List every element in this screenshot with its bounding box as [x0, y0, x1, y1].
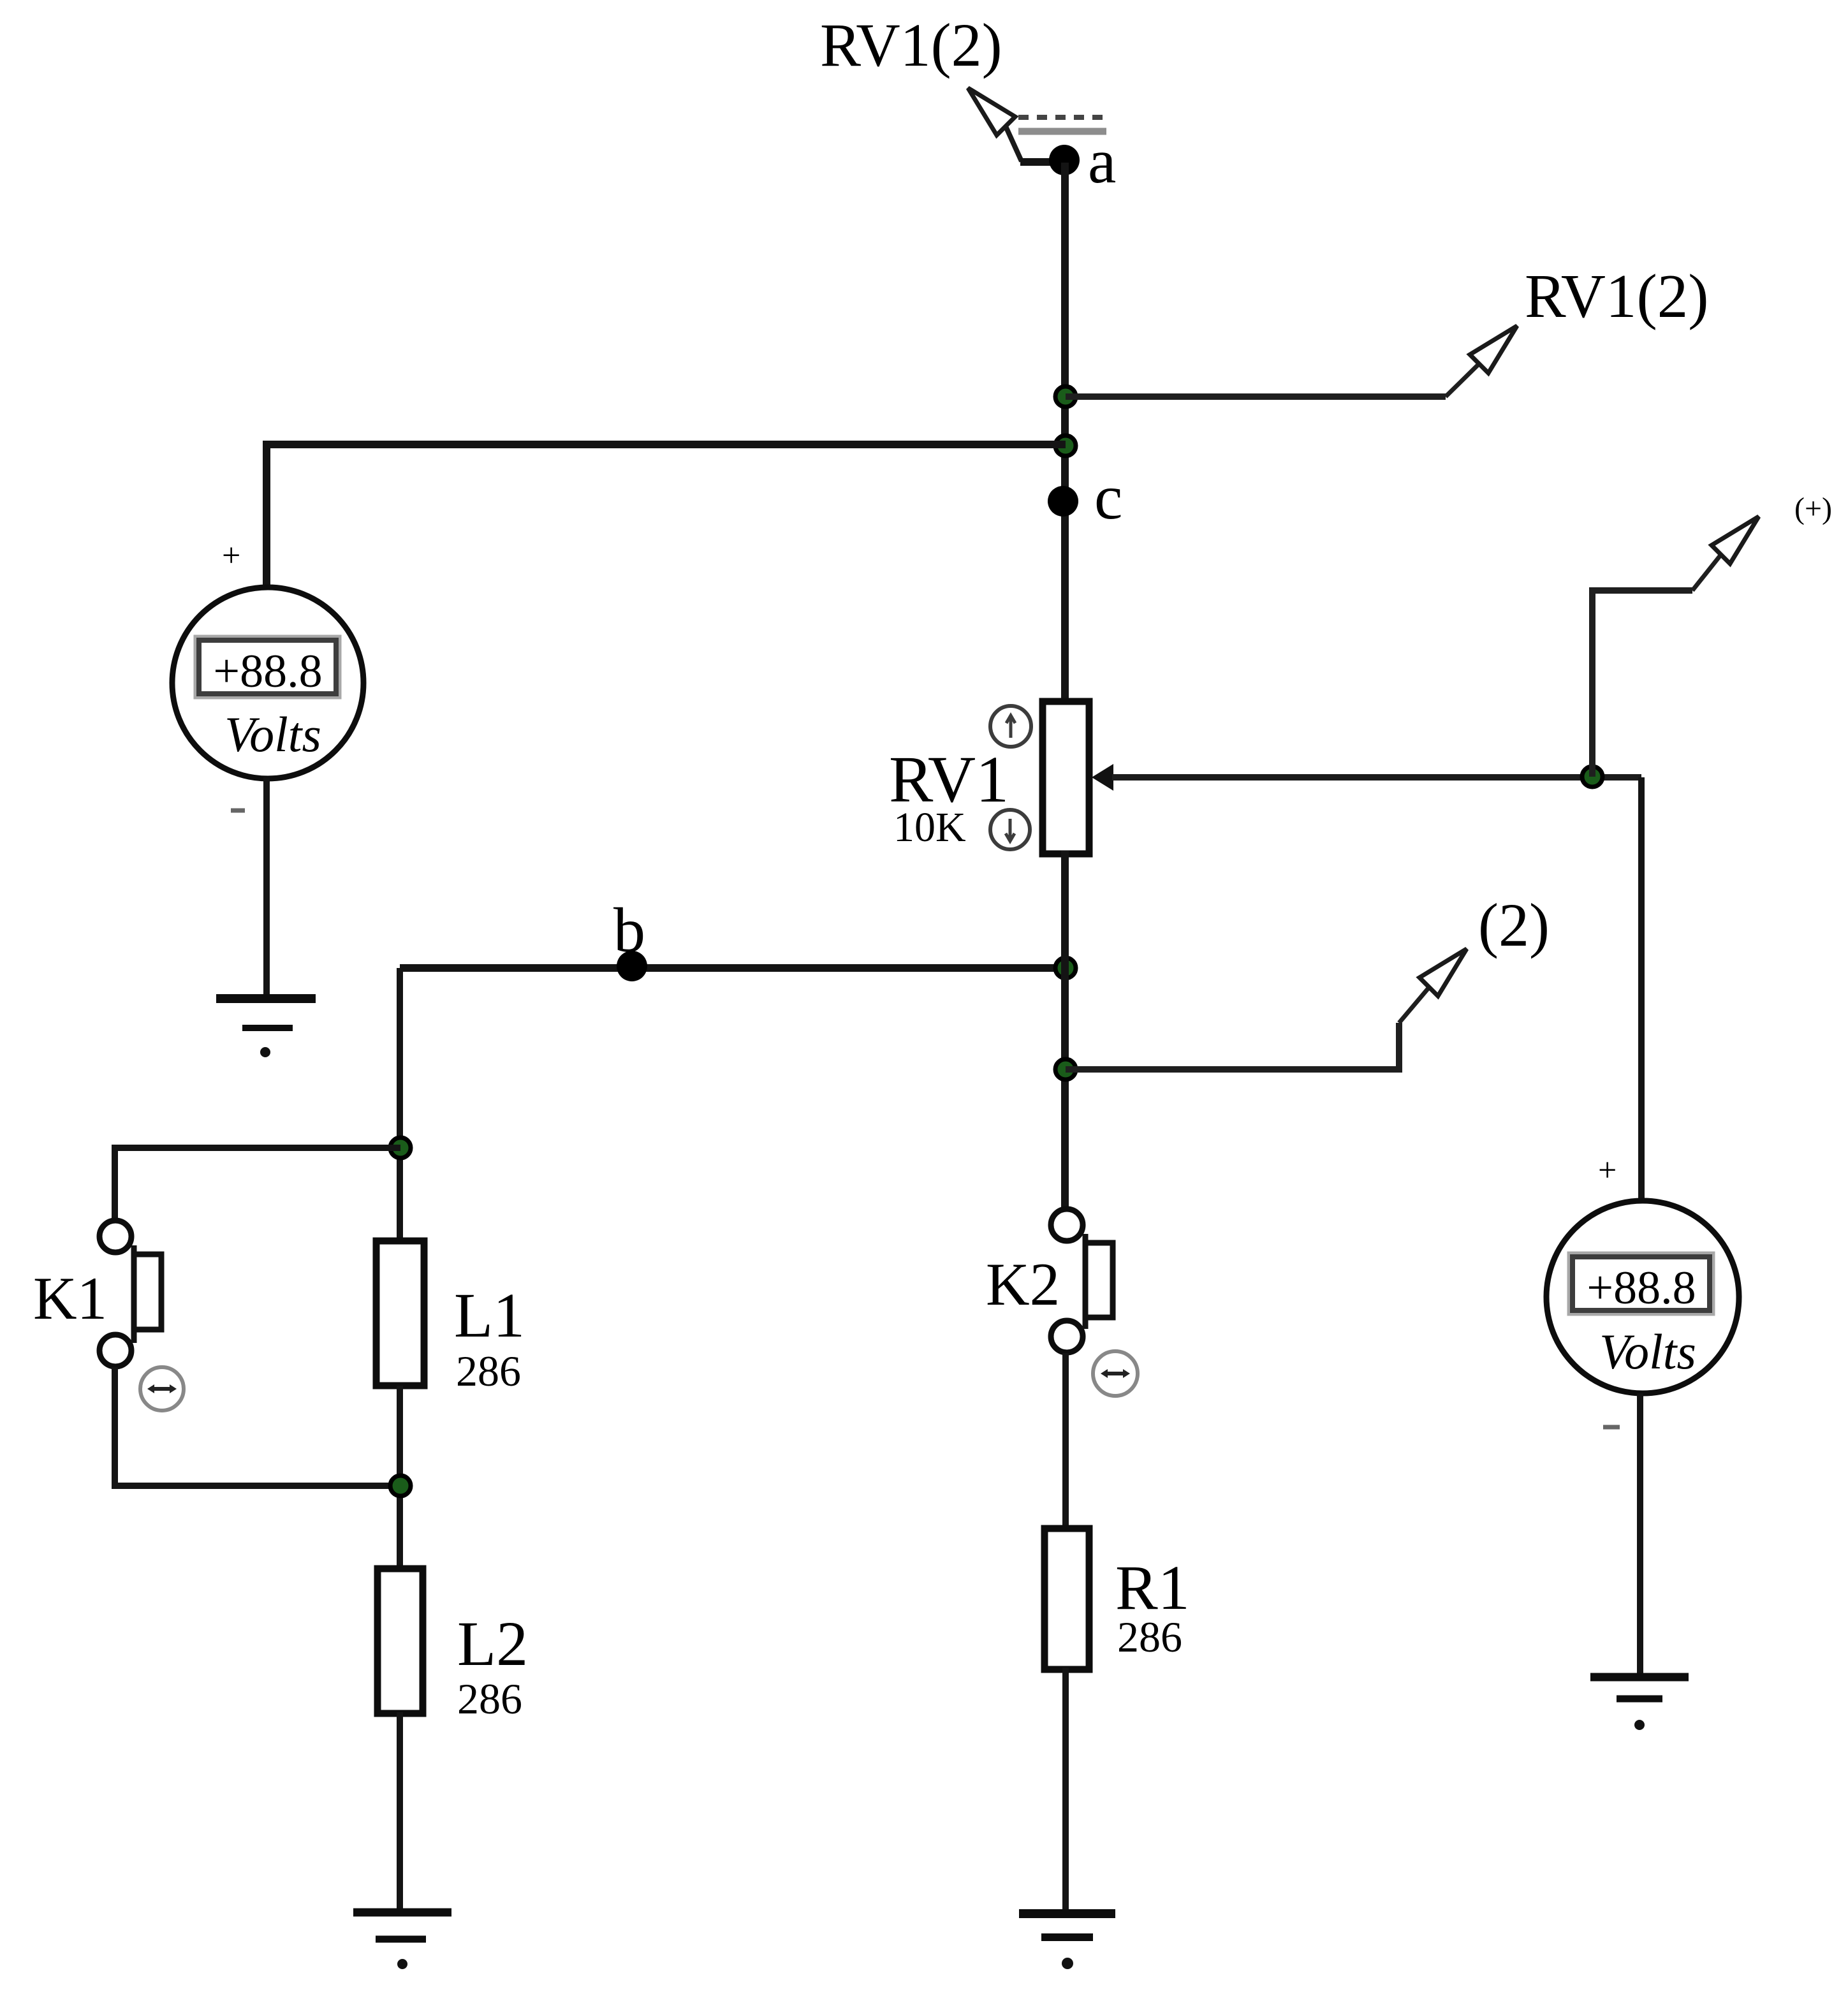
wire K1 bottom to j6 level [115, 1367, 400, 1486]
wire VM2 to ground [1637, 1393, 1643, 1676]
svg-text:286: 286 [456, 1347, 521, 1395]
svg-text:a: a [1088, 126, 1116, 196]
svg-text:RV1(2): RV1(2) [1525, 262, 1709, 330]
wire node b down left column [397, 968, 403, 1241]
svg-text:L2: L2 [457, 1608, 528, 1679]
wire j4 to probe (2) [1066, 986, 1430, 1069]
svg-text:RV1(2): RV1(2) [820, 11, 1002, 79]
minus sign VM1 [231, 809, 245, 813]
junction j5 [390, 1138, 411, 1158]
svg-text:L1: L1 [454, 1280, 525, 1351]
wire wiper to right column [1112, 774, 1641, 781]
wire RV1 bottom to K2 [1061, 851, 1069, 1211]
minus sign VM2 [1603, 1425, 1620, 1430]
circled up-arrow RV1 [990, 706, 1031, 747]
svg-text:b: b [613, 895, 645, 965]
svg-text:c: c [1094, 462, 1122, 532]
wire L1 to j6 [397, 1386, 403, 1570]
svg-text:286: 286 [457, 1675, 522, 1723]
ground G4 [1590, 1677, 1689, 1699]
svg-text:286: 286 [1117, 1613, 1182, 1661]
wire right column down to VM2 [1638, 777, 1645, 1203]
junction j2 [1055, 436, 1076, 456]
junction j1 [1055, 386, 1076, 407]
svg-text:10K: 10K [893, 804, 966, 851]
actuate icon K1 [140, 1367, 184, 1411]
junction j4 [1055, 1059, 1076, 1080]
wire label dashes at node a [1018, 117, 1106, 131]
svg-text:Volts: Volts [1599, 1324, 1696, 1379]
wire R1 to ground [1062, 1668, 1069, 1913]
probe arrow RV1(2) top [968, 88, 1022, 161]
lamp L2 [378, 1569, 423, 1713]
svg-text:(2): (2) [1478, 891, 1550, 959]
switch K1 [99, 1221, 161, 1367]
wire K2 to R1 [1062, 1353, 1069, 1530]
probe arrowhead (+) [1712, 517, 1759, 564]
probe (+) [1592, 553, 1722, 777]
switch K2 [1051, 1209, 1113, 1353]
svg-text:Volts: Volts [224, 707, 321, 762]
voltmeter VM2 [1546, 1201, 1739, 1393]
wire node b horizontal [400, 964, 1065, 972]
junction j3 [1055, 958, 1076, 978]
lamp L1 [376, 1241, 424, 1386]
circled down-arrow RV1 [990, 810, 1030, 849]
ground G2 [1019, 1914, 1115, 1937]
actuate icon K2 [1093, 1351, 1138, 1396]
wire L2 to ground [397, 1712, 403, 1912]
potentiometer RV1 body [1043, 701, 1089, 854]
wiper arrow RV1 [1092, 764, 1113, 791]
probe arrowhead RV1(2) right [1470, 326, 1517, 373]
ground G1 [216, 999, 316, 1028]
svg-text:K2: K2 [986, 1250, 1060, 1318]
wire j1 to probe RV1(2) right [1066, 362, 1481, 397]
junction j6 [390, 1476, 411, 1496]
wire node a down to RV1 [1061, 163, 1069, 705]
node c [1048, 486, 1078, 517]
svg-text:+: + [1598, 1152, 1617, 1189]
svg-text:+88.8: +88.8 [213, 645, 322, 698]
voltmeter VM1 [172, 587, 363, 779]
ground G3 [353, 1912, 451, 1939]
junction j7 on wiper wire [1582, 766, 1602, 787]
svg-text:(+): (+) [1794, 492, 1832, 525]
svg-text:K1: K1 [33, 1265, 107, 1332]
node b [617, 951, 647, 981]
wire stub to node a [1020, 158, 1064, 166]
wire j2 left to voltmeter VM1 [267, 444, 1066, 589]
wire j5 to K1 branch [115, 1148, 400, 1221]
probe arrowhead (2) [1419, 949, 1467, 996]
svg-text:+: + [222, 538, 240, 574]
wire VM1 to ground [263, 777, 270, 997]
svg-text:+88.8: +88.8 [1587, 1262, 1696, 1314]
node a [1049, 145, 1080, 175]
resistor R1 [1045, 1528, 1089, 1669]
